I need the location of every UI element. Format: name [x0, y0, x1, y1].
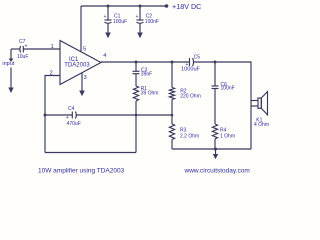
svg-text:10W amplifier using TDA2003: 10W amplifier using TDA2003 [38, 167, 125, 174]
wire R2 to node [171, 100, 173, 125]
capacitor C6 [212, 86, 219, 89]
svg-text:+: + [25, 44, 28, 50]
svg-text:R3: R3 [180, 127, 187, 133]
svg-text:www.circuitstoday.com: www.circuitstoday.com [184, 167, 250, 174]
resistor R2 [169, 88, 174, 100]
svg-text:39 Ohm: 39 Ohm [141, 90, 159, 96]
svg-text:100uF: 100uF [113, 19, 127, 25]
capacitor C7 [20, 46, 24, 53]
svg-text:220 Ohm: 220 Ohm [180, 93, 201, 99]
svg-text:+: + [186, 62, 189, 68]
svg-text:2: 2 [50, 70, 53, 76]
op-amp IC1 triangle [60, 41, 101, 85]
wire pin3 ground [81, 73, 83, 91]
svg-text:input: input [2, 61, 14, 67]
node dots [44, 4, 218, 150]
resistor R3 [169, 124, 174, 140]
svg-text:+: + [104, 14, 107, 20]
capacitor C1 [105, 6, 112, 33]
capacitor C2 [137, 6, 144, 33]
svg-text:1000uF: 1000uF [181, 67, 201, 73]
svg-text:5: 5 [83, 46, 86, 52]
wire C7 to pin1 [23, 48, 60, 50]
svg-text:+: + [136, 14, 139, 20]
svg-text:1 Ohm: 1 Ohm [220, 134, 235, 140]
resistor R1 [133, 86, 138, 101]
svg-text:1: 1 [51, 44, 54, 50]
svg-text:+: + [66, 115, 69, 121]
wire top rail [81, 5, 167, 7]
capacitor C5 [190, 58, 194, 66]
svg-text:100nF: 100nF [221, 86, 235, 92]
wire pin2 [45, 76, 60, 153]
svg-text:C4: C4 [68, 106, 75, 112]
input arrow [9, 59, 14, 63]
wire pin5 vertical [80, 6, 82, 52]
svg-text:3: 3 [84, 75, 87, 81]
wire R2 branch top [171, 62, 173, 88]
wire C5 to speaker [193, 62, 251, 149]
wire C6 branch top [214, 62, 216, 86]
wire output pin4 [101, 61, 189, 63]
ground arrow input [8, 88, 13, 94]
ground arrow bottom [213, 149, 218, 159]
wire bottom right [172, 148, 251, 150]
wire R3 bottom [171, 140, 173, 150]
svg-text:C5: C5 [194, 54, 201, 60]
wire C3 to R1 [135, 74, 137, 86]
svg-text:470uF: 470uF [67, 121, 81, 127]
svg-text:+18V DC: +18V DC [172, 2, 201, 11]
ground arrow pin3 [79, 91, 85, 97]
ground arrow below C1 [105, 33, 111, 39]
svg-text:2.2 Ohm: 2.2 Ohm [180, 134, 199, 140]
resistor R4 [212, 124, 217, 139]
wire C4 to R2R3 node [76, 114, 172, 116]
svg-text:TDA2003: TDA2003 [64, 63, 90, 69]
wire C6 to R4 [214, 89, 216, 124]
wire input drop [10, 49, 12, 59]
svg-text:4: 4 [103, 53, 107, 59]
svg-text:100nF: 100nF [145, 19, 159, 25]
svg-text:4 Ohm: 4 Ohm [254, 122, 269, 128]
wire R1 down [135, 101, 137, 153]
wire R4 bottom [214, 139, 216, 149]
wire C3 branch top [135, 62, 137, 71]
wire input to pin1 [11, 48, 20, 50]
capacitor C3 [133, 71, 140, 73]
wire input to ground [10, 68, 12, 89]
wire feedback y115 [45, 114, 72, 116]
svg-text:10uF: 10uF [17, 54, 28, 60]
capacitor C4 [72, 112, 76, 119]
svg-text:39nF: 39nF [141, 71, 152, 77]
ground arrow below C2 [137, 33, 143, 39]
wire bottom left [45, 152, 136, 154]
speaker K1 [251, 92, 268, 115]
